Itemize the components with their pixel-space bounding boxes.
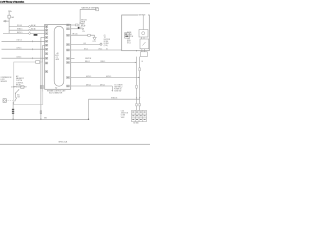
svg-text:NOISE SW: NOISE SW [114, 91, 122, 93]
svg-text:COMPRESSOR: COMPRESSOR [1, 77, 13, 79]
left pin marks [46, 26, 48, 72]
connector ring [4, 20, 6, 22]
svg-text:R/B 0.5: R/B 0.5 [101, 61, 106, 63]
svg-text:C101: C101 [121, 111, 125, 113]
relay coil component [21, 86, 24, 89]
switch S2 [15, 98, 17, 101]
wire fuse down [8, 18, 10, 33]
ground G1 [93, 35, 96, 40]
igniter box C [140, 39, 149, 49]
ignition wire down 2 [139, 57, 141, 111]
connector ring on W3 [29, 33, 31, 35]
svg-text:IGNITER 4-2: IGNITER 4-2 [114, 87, 122, 89]
battery symbol [81, 28, 84, 30]
svg-text:POWER IG: POWER IG [114, 89, 121, 91]
header rule [0, 3, 150, 5]
wire R1 [71, 24, 80, 26]
wire vertical V2 [43, 45, 45, 91]
ignition box [122, 15, 150, 51]
svg-text:W 0.5: W 0.5 [84, 48, 88, 50]
connector on R1 [75, 24, 78, 26]
svg-text:CONN: CONN [121, 115, 125, 117]
dashed link [7, 100, 14, 102]
connector ring end R4 [100, 43, 102, 45]
wire R8 with arrow [71, 86, 113, 90]
wire R3 [71, 34, 95, 36]
svg-text:(COIL): (COIL) [104, 45, 109, 47]
svg-text:B+: B+ [10, 11, 12, 13]
junction dot at bus [12, 119, 13, 120]
wire S2 down to bus [12, 102, 14, 120]
left pin column [45, 26, 48, 73]
svg-text:COIL: COIL [127, 38, 130, 40]
main relay branch L [80, 9, 96, 23]
node E1 [78, 27, 80, 29]
connector tick V2 [42, 86, 43, 89]
connector box D [140, 52, 147, 57]
svg-text:B: B [136, 50, 137, 52]
pin stub row 58.5 [67, 58, 70, 60]
branch end box [96, 8, 99, 11]
svg-text:IGNITION: IGNITION [85, 58, 91, 60]
connector ticks V1 [40, 86, 41, 89]
svg-text:G/W 0.5: G/W 0.5 [86, 76, 91, 78]
svg-text:IG: IG [106, 48, 107, 50]
ignition box label [138, 14, 148, 16]
pressure switch SW box [3, 99, 6, 103]
svg-text:SENSOR: SENSOR [1, 81, 8, 83]
A/C sub box [14, 62, 43, 105]
svg-text:NOISE: NOISE [104, 41, 108, 43]
terminal box E [125, 33, 130, 38]
svg-text:CONTROL: CONTROL [16, 82, 23, 84]
connector ring on W1 [29, 26, 31, 28]
right pin column [67, 24, 70, 87]
svg-text:JUNCTION: JUNCTION [121, 113, 128, 115]
wire below S1 [15, 93, 17, 98]
svg-text:LOCK: LOCK [1, 79, 5, 81]
wire long L2 [2, 48, 45, 50]
arrowheads into bus [136, 97, 137, 98]
wire stub left with connector [3, 20, 9, 22]
svg-text:G/W 0.5: G/W 0.5 [106, 76, 111, 78]
svg-text:WRG 24-B: WRG 24-B [59, 142, 68, 144]
connector on V1 lower [40, 111, 42, 114]
right pin marks [67, 25, 69, 87]
svg-text:L 0.5: L 0.5 [83, 43, 86, 45]
node B+ stub [8, 11, 10, 15]
svg-text:B/W 0.5: B/W 0.5 [17, 32, 23, 34]
connectors on wires [139, 68, 140, 71]
wire R5 [71, 49, 122, 51]
svg-text:BR 1.25: BR 1.25 [73, 34, 78, 36]
svg-text:W 0.5: W 0.5 [99, 48, 103, 50]
junction dot at corner [88, 119, 89, 120]
wire to coil [142, 15, 144, 30]
wire W2 to ECU pin [9, 29, 45, 31]
switch S1 [15, 90, 18, 94]
svg-text:ECU CONNECTOR: ECU CONNECTOR [49, 93, 63, 95]
coil box B [139, 30, 148, 37]
wire R2 [71, 28, 82, 30]
table cell marks [132, 112, 145, 120]
connector ring on W2 [29, 29, 31, 31]
svg-text:G/R 0.5: G/R 0.5 [100, 84, 105, 86]
svg-text:W/L 0.5: W/L 0.5 [17, 25, 22, 27]
label block dark [34, 34, 38, 36]
ground bus [0, 99, 140, 119]
wire long L1 [2, 40, 45, 42]
svg-text:G/R 0.5: G/R 0.5 [86, 84, 91, 86]
page background [0, 0, 150, 150]
svg-text:W/B 0.85: W/B 0.85 [81, 19, 87, 21]
pin table [132, 110, 147, 121]
svg-text:C2: C2 [56, 57, 58, 59]
junction dot V1-bus [40, 119, 41, 120]
svg-text:12V: 12V [82, 31, 85, 33]
connector on R3 [88, 34, 90, 36]
svg-text:ENGINE CONTROL UNIT: ENGINE CONTROL UNIT [47, 91, 65, 93]
pin on sub box top [36, 61, 40, 64]
svg-text:W/B 0.5: W/B 0.5 [17, 29, 23, 31]
svg-text:L/W 0.5: L/W 0.5 [17, 40, 22, 42]
svg-text:IGNITION: IGNITION [104, 39, 110, 41]
wire W3 to ECU pin [3, 32, 45, 34]
wire R7 [71, 76, 140, 78]
svg-text:W/B: W/B [44, 118, 47, 120]
wire vertical V1 [41, 37, 45, 119]
svg-text:L/R 0.5: L/R 0.5 [17, 48, 22, 50]
ECU inner stadium [54, 26, 64, 86]
connector stack on wire [12, 109, 14, 114]
svg-text:W/B 0.85: W/B 0.85 [111, 98, 117, 100]
svg-text:4 of 8 Theory of Operation: 4 of 8 Theory of Operation [0, 1, 25, 4]
svg-text:FILTER: FILTER [104, 43, 109, 45]
svg-text:2 0.5: 2 0.5 [93, 41, 96, 43]
wire long L3 [2, 57, 45, 59]
svg-text:CLUTCH: CLUTCH [16, 80, 22, 82]
svg-text:IG: IG [142, 61, 143, 63]
footer rule [0, 143, 150, 145]
wire W1 to ECU pin [9, 25, 45, 27]
svg-text:E2 GND: E2 GND [134, 123, 139, 125]
ignition wire down 1 [136, 57, 138, 111]
ECU box U1 [45, 24, 71, 89]
wire R6 [71, 61, 137, 63]
svg-text:W 0.5: W 0.5 [127, 43, 131, 45]
fuse F1 [8, 15, 10, 18]
wire R4 [71, 44, 100, 46]
arrowhead down [79, 23, 81, 25]
svg-text:R/B 0.5: R/B 0.5 [85, 61, 90, 63]
svg-text:L/B 0.5: L/B 0.5 [17, 57, 22, 59]
svg-text:IGNITION: IGNITION [139, 15, 146, 17]
